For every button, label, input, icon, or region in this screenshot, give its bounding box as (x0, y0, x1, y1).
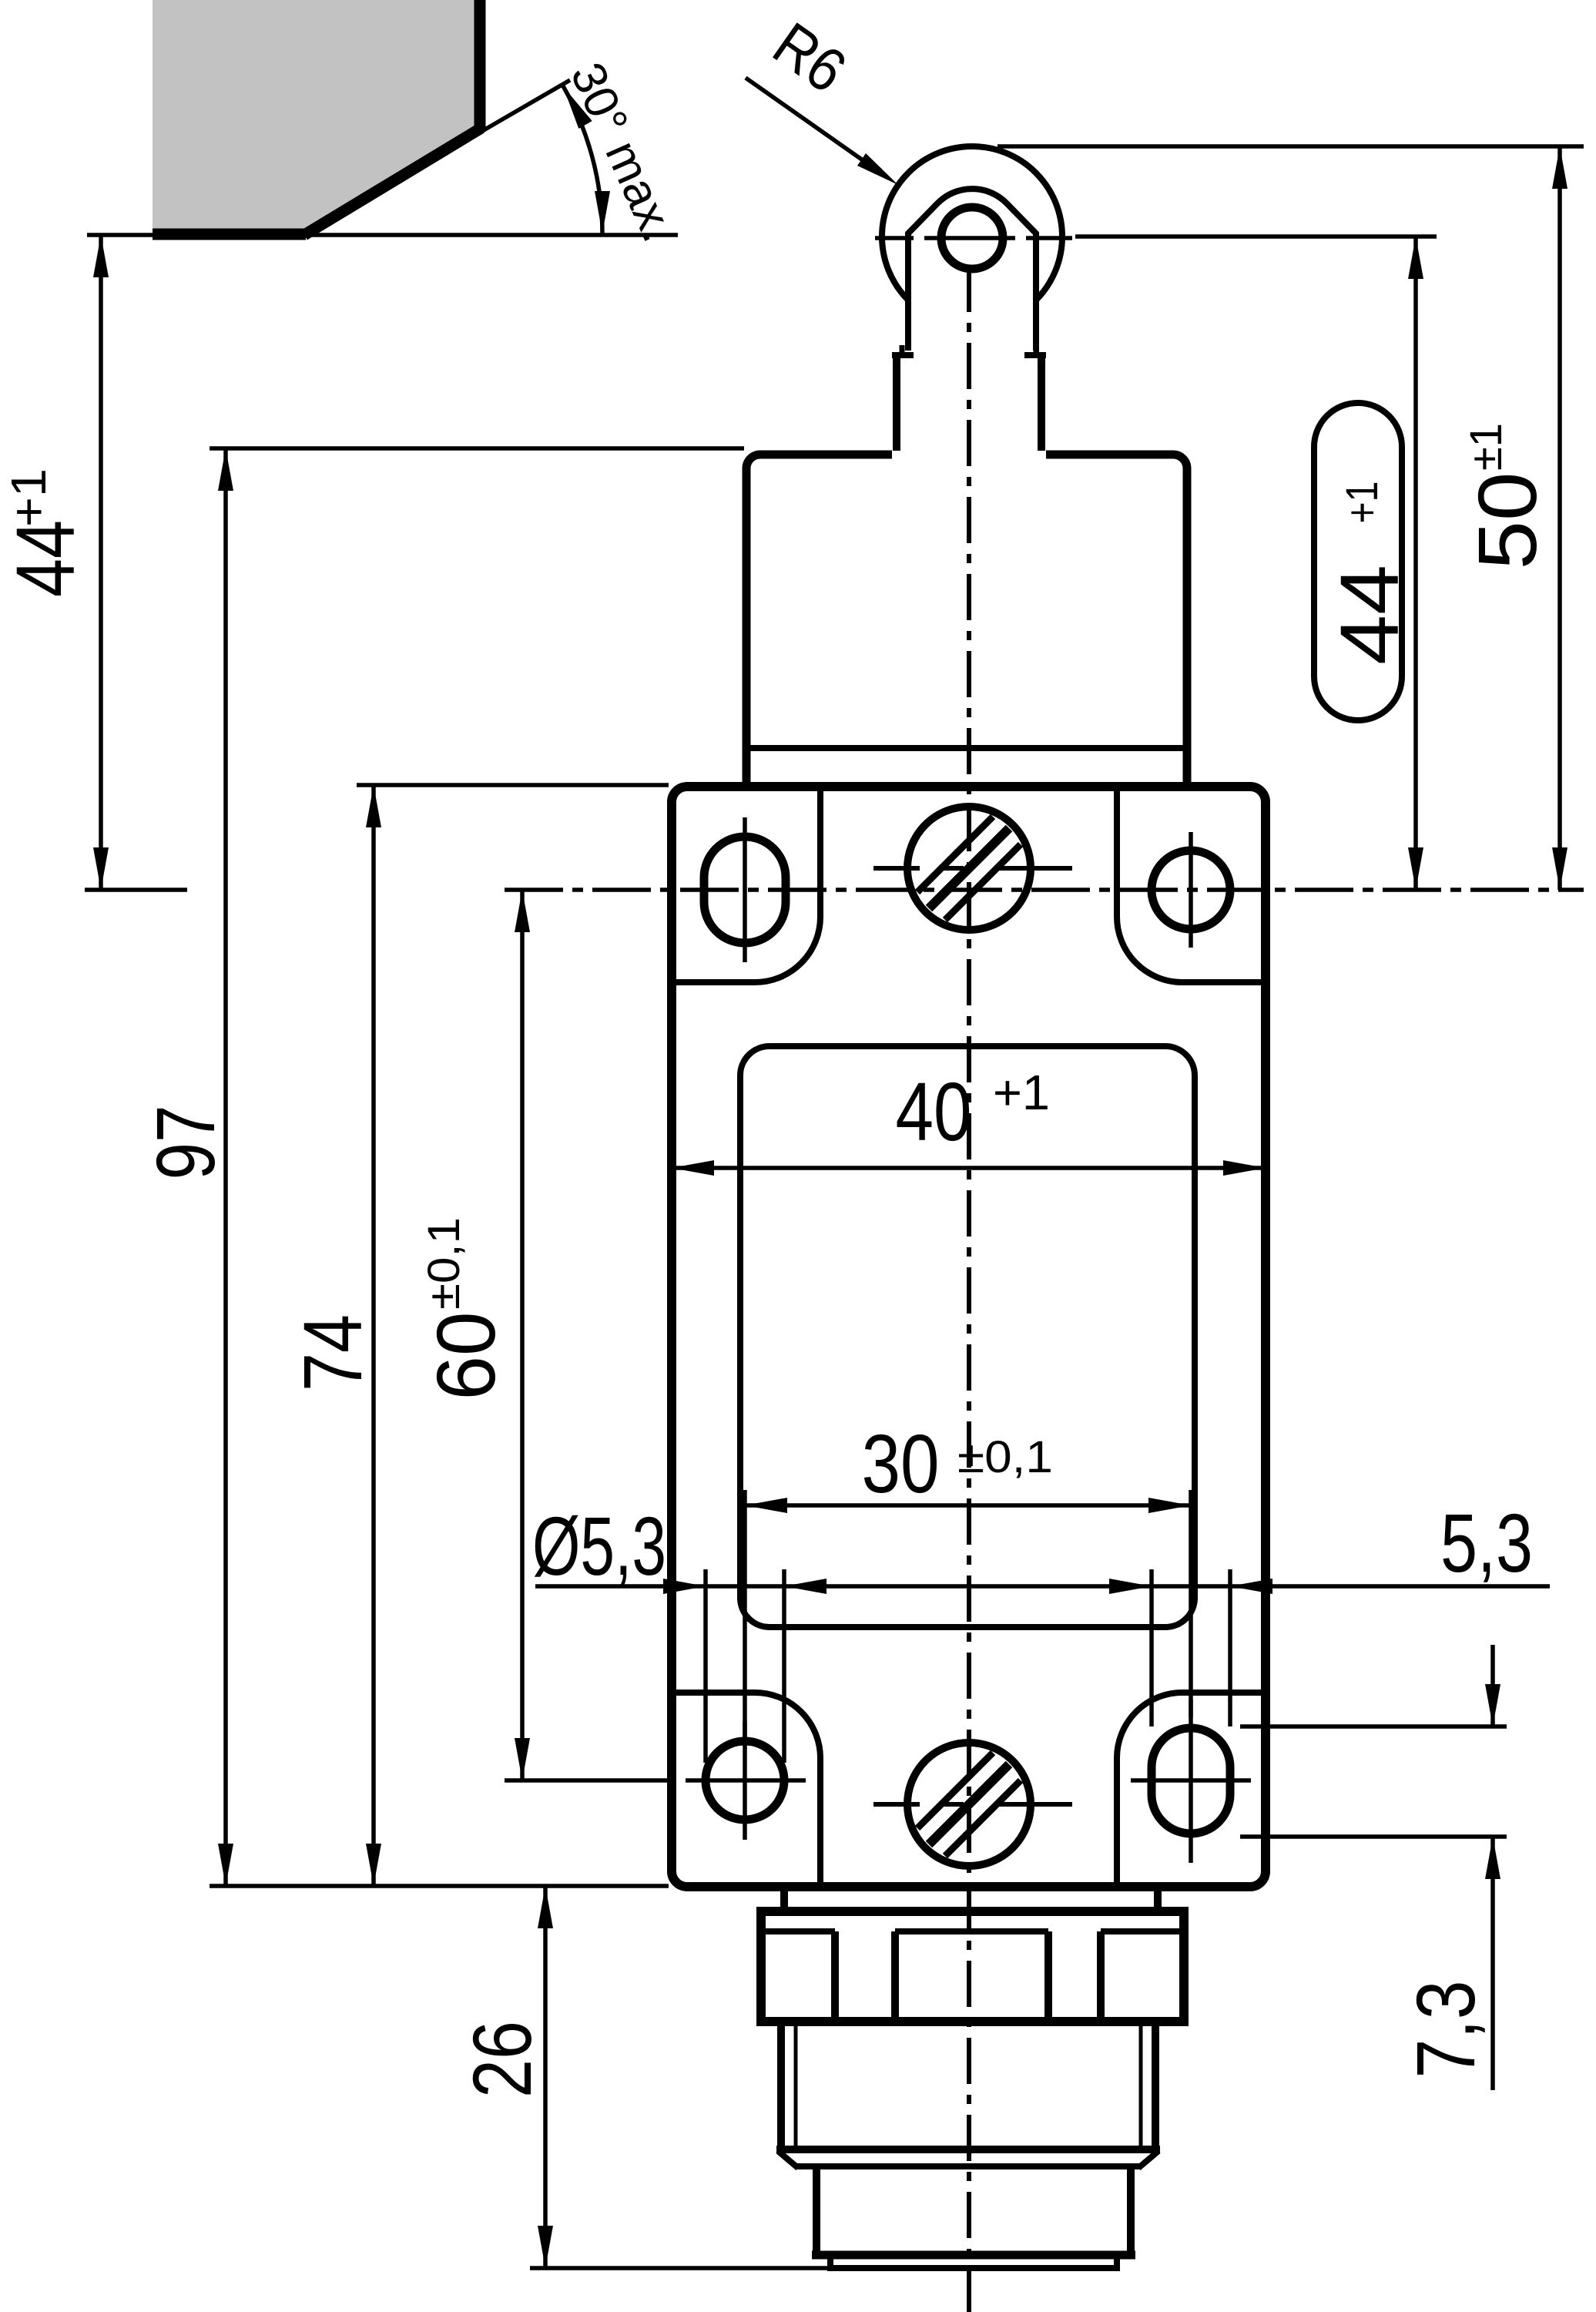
ear contour bottom-left (672, 1693, 820, 1882)
mounting slot hole bottom-right (1152, 1728, 1230, 1834)
head block (743, 451, 1192, 787)
cam (gray actuating dog) (153, 0, 481, 235)
svg-text:7,3: 7,3 (1399, 1981, 1492, 2079)
cover panel (740, 1046, 1195, 1627)
30 deg angle dimension (304, 55, 686, 250)
dimension 50 +-1 (1460, 146, 1567, 890)
datum surface line (87, 233, 678, 237)
svg-text:±0,1: ±0,1 (419, 1217, 469, 1310)
svg-text:+1: +1 (1, 468, 56, 527)
dimension 40 +1 (672, 1065, 1266, 1176)
gland nut (761, 1911, 1184, 2022)
main vertical centerline (967, 266, 971, 2312)
head seam line (746, 745, 1187, 751)
dimension diameter 5,3 and 5,3 (532, 1496, 1550, 1763)
dimension 97 (139, 448, 744, 1886)
svg-text:40: 40 (896, 1065, 972, 1158)
plunger lower section (892, 345, 1046, 454)
mounting hole top-right (1152, 851, 1230, 929)
svg-text:44: 44 (1323, 565, 1416, 665)
threaded boss (776, 2022, 1160, 2168)
svg-text:±1: ±1 (1461, 423, 1511, 471)
svg-text:Ø5,3: Ø5,3 (532, 1499, 666, 1592)
svg-text:60: 60 (419, 1312, 512, 1401)
ear contour top-left (672, 791, 820, 982)
svg-text:26: 26 (455, 2021, 548, 2098)
roller top extension line (997, 144, 1584, 149)
top holes centerline (505, 888, 1584, 892)
svg-text:50: 50 (1460, 472, 1554, 570)
bottom cap (812, 2166, 1135, 2268)
R6 label and leader (746, 9, 898, 185)
dimension 7,3 (1240, 1645, 1507, 2090)
dimension 44+1 left (0, 235, 187, 890)
svg-text:+1: +1 (993, 1065, 1050, 1120)
dimension 44+1 right with stadium frame (1314, 237, 1423, 890)
svg-text:97: 97 (139, 1106, 232, 1180)
fork (clevis) (908, 189, 1036, 355)
svg-text:74: 74 (286, 1314, 379, 1391)
ear contour top-right (1117, 791, 1266, 982)
mounting slot hole top-left (704, 837, 786, 943)
svg-text:5,3: 5,3 (1440, 1496, 1533, 1589)
pin plane extension line right (1075, 234, 1437, 239)
svg-text:±0,1: ±0,1 (957, 1432, 1053, 1482)
dimension 30 +-0,1 (745, 1417, 1191, 1746)
bottom holes centerline extension (505, 1778, 672, 1783)
dimension 74 (286, 785, 669, 1886)
pin centerline (875, 236, 1072, 240)
roller (882, 146, 1062, 327)
svg-text:30: 30 (862, 1417, 940, 1510)
dimension 60 +-0,1 (419, 890, 530, 1780)
body bottom extension line (210, 1884, 669, 1888)
roller pin (941, 207, 1003, 269)
svg-text:44: 44 (0, 520, 92, 597)
screw bottom (873, 1743, 1072, 1866)
screw top (873, 807, 1072, 930)
neck below body (784, 1891, 1158, 1911)
ear contour bottom-right (1117, 1693, 1266, 1882)
dimension 26 (455, 1886, 830, 2268)
mounting hole bottom-left (706, 1741, 784, 1820)
svg-text:+1: +1 (1337, 482, 1387, 524)
body (672, 787, 1266, 1887)
